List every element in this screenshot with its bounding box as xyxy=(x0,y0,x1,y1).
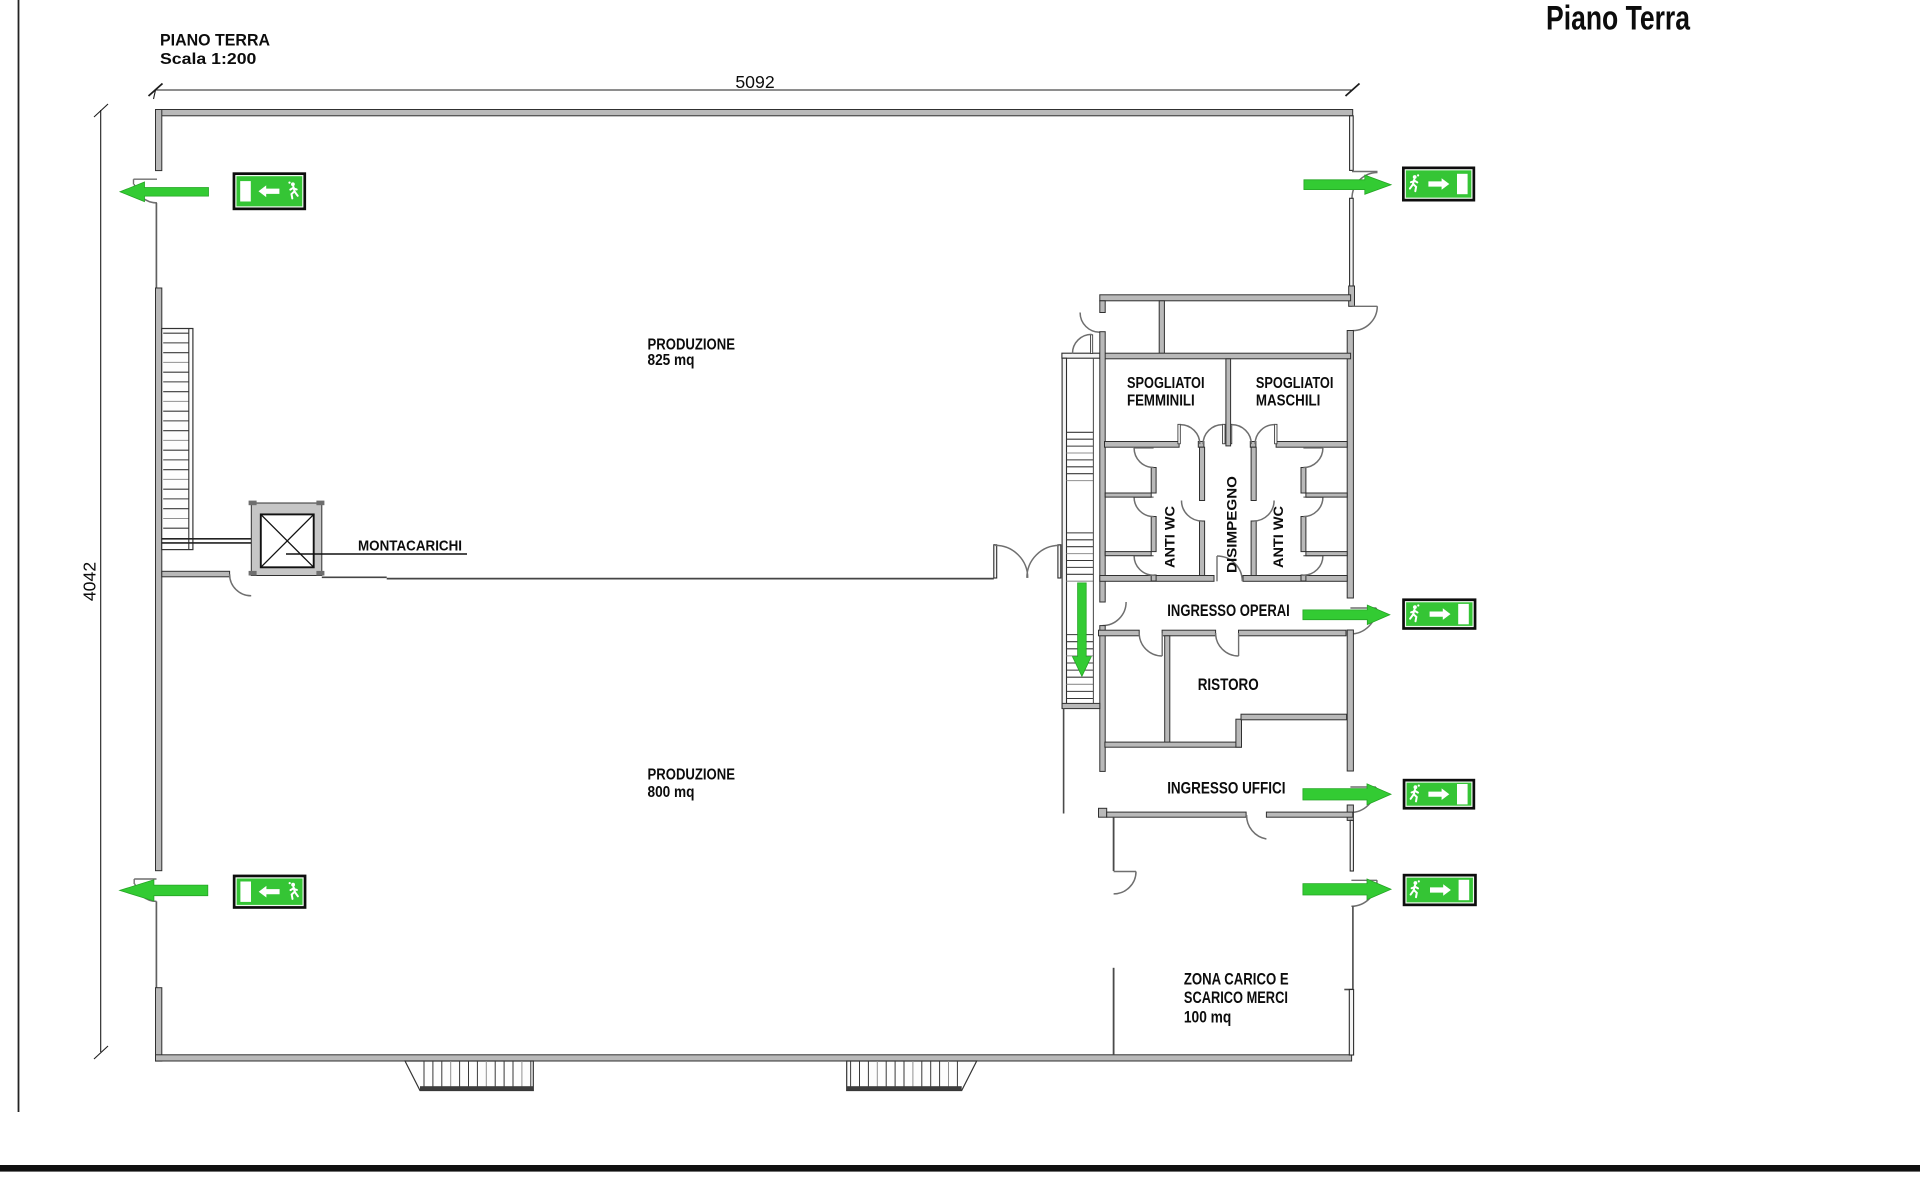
door spogliatoi M1 arc xyxy=(1232,425,1252,445)
outer wall left bottom segment xyxy=(156,988,162,1061)
door left bottom leaf xyxy=(134,879,156,884)
green arrow ingresso uffici xyxy=(1303,784,1391,805)
svg-text:800 mq: 800 mq xyxy=(648,784,695,801)
outer wall right stub xyxy=(1344,989,1353,991)
svg-text:ANTI WC: ANTI WC xyxy=(1270,506,1286,568)
shaft left rail xyxy=(1062,358,1066,708)
outer wall left thin segment xyxy=(155,203,157,289)
svg-text:825 mq: 825 mq xyxy=(648,352,695,369)
outer wall right upper thin xyxy=(1350,116,1354,171)
stairs left bottom rails xyxy=(162,539,252,543)
shaft lower left rail xyxy=(1063,709,1065,814)
elevator corner feet xyxy=(249,501,325,576)
block corridor divider V0 xyxy=(1159,301,1164,354)
door spogliatoi F1 leaf xyxy=(1178,424,1180,444)
door cell5 leaf xyxy=(1161,633,1163,656)
svg-text:Scala 1:200: Scala 1:200 xyxy=(160,51,257,68)
door operai exit arc xyxy=(1350,608,1376,634)
door ristoro leaf xyxy=(1238,633,1240,656)
exit sign ingresso uffici xyxy=(1403,779,1476,810)
outer wall right lower line xyxy=(1352,906,1354,989)
door spogliatoi F1 arc xyxy=(1180,425,1200,445)
door left top arc xyxy=(134,184,157,203)
door wc left cell arc y448 xyxy=(1134,448,1154,468)
exit sign top-right xyxy=(1402,167,1475,202)
wc right cell divider 1 xyxy=(1306,493,1347,497)
door disimpegno-corridor arc xyxy=(1217,556,1242,581)
door wc left cell arc y556 xyxy=(1134,556,1154,576)
svg-text:INGRESSO UFFICI: INGRESSO UFFICI xyxy=(1167,780,1285,798)
svg-text:INGRESSO OPERAI: INGRESSO OPERAI xyxy=(1167,602,1290,620)
door wc right cell arc y556 xyxy=(1303,556,1323,576)
exit sign ingresso operai xyxy=(1402,598,1476,629)
outer wall bottom xyxy=(156,1055,1352,1061)
svg-text:ANTI WC: ANTI WC xyxy=(1162,506,1178,568)
wc wall V3 upper xyxy=(1251,447,1256,500)
ristoro bottom wall H6a xyxy=(1105,742,1242,747)
block second wall H2 xyxy=(1100,353,1351,359)
door uffici exit arc xyxy=(1350,787,1376,813)
outer wall left upper xyxy=(156,110,162,171)
door wc left cell leaf y448 xyxy=(1134,447,1154,449)
door service entrance leaf xyxy=(1352,305,1377,307)
block third wall H3 a xyxy=(1105,442,1180,448)
middle wall left segment xyxy=(162,571,230,577)
double door left arc xyxy=(995,545,1028,578)
door uffici exit leaf xyxy=(1350,786,1376,788)
door spogliatoi M1 leaf xyxy=(1229,424,1231,444)
stairs bottom-right lower band xyxy=(847,1086,962,1090)
elevator diagonal 1 xyxy=(261,514,314,567)
block fourth wall H4 a xyxy=(1100,576,1214,582)
svg-text:4042: 4042 xyxy=(80,562,100,601)
door wc right cell leaf y497 xyxy=(1303,496,1323,498)
door wc left cell leaf y497 xyxy=(1134,496,1154,498)
block fifth wall H5 a xyxy=(1099,630,1140,636)
door block topleft arc xyxy=(1080,313,1100,333)
double door right arc xyxy=(1027,545,1060,578)
svg-text:PRODUZIONE: PRODUZIONE xyxy=(648,767,736,784)
block left wall B xyxy=(1100,332,1105,602)
door wc right cell leaf y448 xyxy=(1303,447,1323,449)
production divider line a xyxy=(322,576,387,578)
door right top leaf xyxy=(1352,171,1378,173)
door right bottom arc xyxy=(1351,880,1377,906)
wc wall V2 upper xyxy=(1200,447,1205,500)
door elevator lobby arc xyxy=(230,574,252,596)
door right bottom leaf xyxy=(1351,879,1377,881)
svg-text:SCARICO MERCI: SCARICO MERCI xyxy=(1184,989,1288,1007)
svg-text:PIANO TERRA: PIANO TERRA xyxy=(160,32,270,50)
wc wall V4 seg 468 xyxy=(1301,468,1306,494)
svg-text:SPOGLIATOI: SPOGLIATOI xyxy=(1127,375,1205,392)
door spogliatoi F2 leaf xyxy=(1223,424,1225,444)
door disimpegno leaf xyxy=(1216,556,1218,581)
ristoro bottom wall H6b xyxy=(1241,714,1347,720)
block third wall V2 stub xyxy=(1198,442,1204,448)
door antiwc right arc xyxy=(1254,501,1275,522)
wc wall V3 lower xyxy=(1251,521,1256,576)
double door right leaf xyxy=(1058,545,1061,578)
shaft stair rungs xyxy=(1067,432,1094,698)
svg-text:RISTORO: RISTORO xyxy=(1198,676,1259,694)
outer wall right pillar xyxy=(1349,286,1355,306)
shaft top wall xyxy=(1062,353,1100,358)
door left top leaf xyxy=(134,179,158,184)
svg-text:100 mq: 100 mq xyxy=(1184,1008,1231,1026)
block left wall C xyxy=(1100,626,1105,772)
ristoro step wall V7 xyxy=(1236,719,1242,747)
scan edge line left xyxy=(18,0,20,1112)
outer wall left thin lower xyxy=(155,901,157,988)
svg-text:5092: 5092 xyxy=(735,72,774,92)
wc wall V1 seg 516 xyxy=(1151,517,1156,552)
production divider line b xyxy=(387,578,994,580)
svg-text:Piano Terra: Piano Terra xyxy=(1546,0,1691,38)
svg-text:MASCHILI: MASCHILI xyxy=(1256,393,1321,410)
door ristoro arc xyxy=(1216,633,1239,656)
outer wall top xyxy=(156,110,1353,116)
wc wall V4 seg 575 xyxy=(1301,575,1306,581)
svg-text:SPOGLIATOI: SPOGLIATOI xyxy=(1256,375,1334,392)
montacarichi leader line xyxy=(286,553,467,555)
dimension line 4042 xyxy=(94,104,108,1059)
door wc left cell arc y497 xyxy=(1134,497,1154,516)
zona carico wall upper xyxy=(1113,817,1115,871)
outer wall left main xyxy=(156,288,162,871)
stairs left inner rail xyxy=(188,329,190,550)
ristoro left divider V6 xyxy=(1165,636,1170,744)
green arrow exit top-left xyxy=(120,182,209,202)
stairs left outline xyxy=(162,329,193,550)
block sixth wall H7 b xyxy=(1266,812,1352,817)
green arrow exit bottom-right xyxy=(1303,879,1391,900)
shaft right rail line xyxy=(1092,358,1094,703)
stairs left rungs xyxy=(163,333,189,528)
block 6th wall left pillar xyxy=(1099,808,1107,817)
door zona carico arc xyxy=(1114,872,1136,894)
scan band bottom xyxy=(0,1165,1920,1172)
door spogliatoi M2 leaf xyxy=(1275,424,1277,444)
dimension line 5092 xyxy=(149,84,1360,100)
elevator inner cab xyxy=(261,514,314,567)
door spogliatoi M2 arc xyxy=(1255,425,1275,445)
svg-text:FEMMINILI: FEMMINILI xyxy=(1127,393,1195,410)
block third wall V3 stub xyxy=(1250,442,1256,448)
zona carico wall lower xyxy=(1113,968,1115,1055)
outer wall right block low xyxy=(1347,805,1353,820)
door operai exit leaf xyxy=(1350,607,1376,609)
green arrow ingresso operai xyxy=(1303,605,1390,624)
door wc right cell arc y497 xyxy=(1303,497,1323,516)
block third wall H3 b xyxy=(1276,442,1347,448)
wc wall V2 lower xyxy=(1200,521,1205,576)
stairs bottom-right rungs xyxy=(851,1061,958,1087)
outer wall right thin 3 xyxy=(1350,820,1353,871)
block fourth wall H4 b xyxy=(1243,576,1347,582)
green arrow exit top-right xyxy=(1304,175,1391,194)
door wc right cell leaf y556 xyxy=(1303,555,1323,557)
door left bottom arc xyxy=(135,884,157,902)
wc right cell divider 2 xyxy=(1306,552,1347,556)
svg-text:DISIMPEGNO: DISIMPEGNO xyxy=(1224,476,1240,573)
block wall top H1 xyxy=(1100,295,1351,301)
stairs bottom-right outline xyxy=(847,1061,977,1091)
shaft door arc xyxy=(1073,334,1092,353)
exit sign bottom-left xyxy=(233,875,307,909)
wc wall V1 seg 575 xyxy=(1151,575,1156,581)
door uffici inner arc xyxy=(1247,815,1267,839)
block sixth wall H7 a xyxy=(1107,812,1246,817)
wc wall V4 seg 516 xyxy=(1301,517,1306,552)
double door left leaf xyxy=(994,545,997,578)
spogliatoi divider V5 xyxy=(1226,359,1231,446)
door zona carico leaf xyxy=(1114,871,1136,873)
door shaft-operai arc xyxy=(1103,602,1127,626)
block fifth wall H5 b xyxy=(1162,630,1216,636)
door service entrance arc xyxy=(1353,306,1378,330)
door cell5 arc xyxy=(1139,633,1162,656)
door antiwc left arc xyxy=(1182,501,1203,522)
outer wall right thin 4 xyxy=(1349,990,1353,1056)
svg-text:MONTACARICHI: MONTACARICHI xyxy=(358,538,462,555)
outer wall right block mid xyxy=(1347,630,1353,771)
exit sign bottom-right xyxy=(1403,874,1477,906)
door wc left cell leaf y556 xyxy=(1134,555,1154,557)
elevator diagonal 2 xyxy=(261,514,314,567)
stairs bottom-left rungs xyxy=(424,1061,531,1087)
elevator shaft outer xyxy=(251,503,321,576)
outer wall right block upper xyxy=(1347,331,1353,599)
exit sign top-left xyxy=(233,172,307,210)
wc left cell divider 1 xyxy=(1105,493,1151,497)
green arrow stairs down xyxy=(1072,583,1091,676)
door right top arc xyxy=(1352,173,1378,199)
stairs bottom-left lower band xyxy=(420,1086,533,1090)
shaft bottom wall xyxy=(1062,703,1100,708)
green arrow exit bottom-left xyxy=(120,880,208,901)
svg-text:ZONA CARICO E: ZONA CARICO E xyxy=(1184,971,1289,989)
shaft door leaf xyxy=(1090,335,1092,354)
wc wall V1 seg 468 xyxy=(1151,468,1156,494)
outer wall right thin 2 xyxy=(1350,198,1354,286)
door wc right cell arc y448 xyxy=(1303,448,1323,468)
block fifth wall H5 c xyxy=(1239,630,1347,636)
block left wall pillar A xyxy=(1100,301,1105,313)
door spogliatoi F2 arc xyxy=(1203,425,1223,445)
stairs bottom-left outline xyxy=(405,1061,533,1091)
wc left cell divider 2 xyxy=(1105,552,1151,556)
